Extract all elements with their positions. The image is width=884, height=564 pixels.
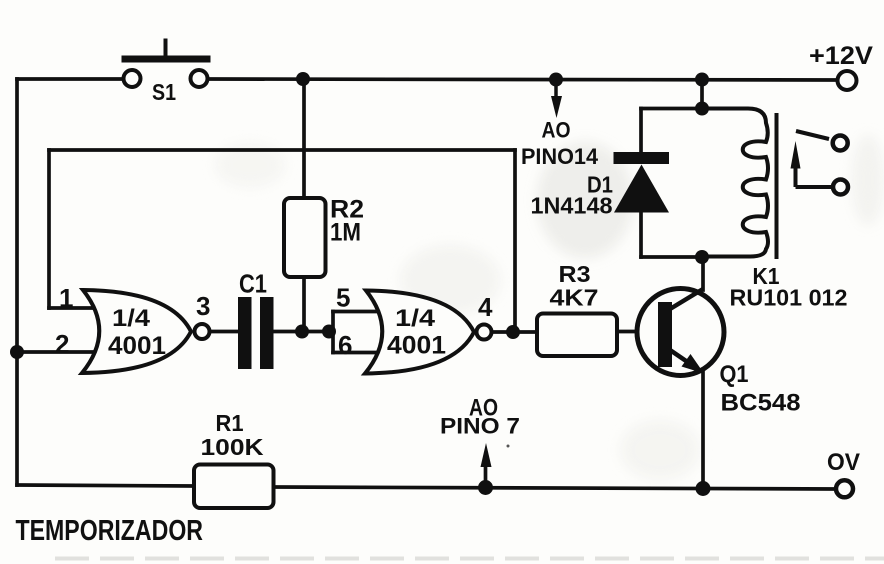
node bottom rail pino7	[478, 480, 493, 495]
resistor R2	[284, 196, 364, 278]
resistor R1	[194, 410, 274, 508]
wire D1 top horizontal	[641, 107, 702, 111]
wire feedback top	[49, 148, 515, 152]
wire gate1 input1	[49, 306, 96, 310]
wire D1 bottom horizontal	[641, 255, 702, 259]
wire gate1 input2	[17, 350, 97, 354]
op-amp U1A NOR gate 1/4 4001	[55, 283, 210, 373]
wire D1 vertical top	[639, 109, 643, 156]
svg-text:1M: 1M	[330, 219, 361, 247]
svg-text:1/4: 1/4	[112, 305, 151, 332]
svg-text:Q1: Q1	[720, 361, 749, 388]
Q1 emitter lead with arrow	[670, 350, 689, 363]
svg-text:R1: R1	[216, 410, 244, 436]
svg-text:PINO 7: PINO 7	[440, 414, 520, 439]
svg-text:6: 6	[338, 330, 352, 360]
node coil bottom	[695, 250, 709, 264]
svg-text:TEMPORIZADOR: TEMPORIZADOR	[16, 515, 204, 547]
wire gate2 input6	[333, 351, 379, 355]
Q1 collector lead	[670, 289, 703, 309]
contact terminal upper	[833, 136, 848, 151]
wire top rail left segment	[17, 77, 124, 81]
wire bottom rail right of R1	[273, 487, 835, 489]
terminal +12V	[809, 42, 873, 90]
wire bottom rail left of R1	[17, 485, 194, 486]
wire R3 to base	[617, 330, 659, 334]
D1 anode triangle	[614, 165, 669, 213]
relay contact	[791, 131, 849, 195]
wire emitter vertical	[701, 371, 705, 487]
svg-text:R3: R3	[559, 261, 591, 287]
svg-text:1: 1	[59, 283, 73, 313]
svg-text:1/4: 1/4	[395, 305, 436, 332]
gate2 output bubble	[477, 325, 492, 340]
S1 push bar	[122, 56, 211, 63]
contact terminal lower	[833, 180, 848, 195]
svg-text:2: 2	[55, 329, 69, 359]
svg-text:+12V: +12V	[809, 42, 873, 70]
svg-text:S1: S1	[152, 79, 176, 105]
svg-text:4001: 4001	[387, 332, 446, 360]
contact wire	[796, 185, 832, 189]
svg-text:C1: C1	[239, 269, 267, 299]
diode D1	[531, 152, 670, 219]
node R2/C1 junction	[295, 325, 309, 339]
wire top rail right segment	[209, 79, 838, 80]
arrowhead from pino7 node	[481, 443, 492, 467]
svg-text:PINO14: PINO14	[521, 144, 599, 169]
wire left rail	[15, 79, 19, 485]
wire collector vertical	[701, 257, 705, 290]
node top rail R2	[296, 72, 310, 86]
wire relay branch from rail	[700, 79, 704, 109]
wire gate2 output to R3	[492, 330, 537, 334]
node left rail input2	[10, 345, 24, 359]
Q1 base bar	[658, 302, 672, 367]
svg-text:4: 4	[478, 292, 493, 322]
wire D1 vertical bottom	[639, 210, 643, 257]
wire gate2 input5	[333, 310, 379, 314]
svg-text:100K: 100K	[201, 434, 264, 460]
node top rail pino14	[549, 73, 563, 87]
wire feedback right vertical	[513, 150, 517, 332]
svg-text:5: 5	[336, 283, 350, 313]
switch S1	[122, 39, 211, 106]
contact moving blade	[796, 131, 829, 139]
gate1 output bubble	[195, 324, 210, 339]
wire R2 top	[302, 79, 306, 198]
svg-text:AO: AO	[542, 118, 571, 143]
op-amp U1B NOR gate 1/4 4001	[336, 283, 493, 374]
svg-text:4K7: 4K7	[550, 285, 599, 311]
D1 cathode bar	[614, 152, 670, 164]
S1 right contact	[191, 70, 208, 87]
svg-text:RU101 012: RU101 012	[730, 285, 848, 311]
node AO PINO 7 arrow	[440, 395, 520, 468]
terminal 0V	[827, 449, 860, 497]
wire feedback left vertical	[47, 150, 51, 308]
contact actuation arrow	[791, 141, 801, 169]
wire R2 bottom	[302, 277, 306, 332]
arrowhead to pino14	[551, 96, 562, 118]
resistor R3	[537, 261, 617, 356]
capacitor C1	[238, 269, 274, 370]
svg-text:OV: OV	[827, 449, 860, 476]
svg-text:BC548: BC548	[721, 390, 801, 417]
scan smudges (decorative)	[55, 135, 884, 559]
node top rail relay branch	[695, 73, 709, 87]
node gate2 output junction	[506, 325, 520, 339]
transistor Q1	[637, 289, 801, 417]
wire gate2 input bracket vertical	[331, 312, 335, 353]
wire AO PINO 7 arrow shaft	[484, 465, 488, 487]
svg-text:4001: 4001	[108, 332, 166, 360]
node bracket junction	[322, 325, 336, 339]
svg-text:1N4148: 1N4148	[531, 193, 613, 219]
node bottom rail emitter	[696, 481, 711, 496]
node coil top	[695, 102, 709, 116]
wire gate1 output to C1	[210, 330, 239, 334]
S1 actuator stem	[164, 39, 168, 56]
relay coil K1	[702, 109, 848, 311]
S1 left contact	[124, 70, 141, 87]
wire C1 to node	[273, 330, 333, 334]
K1 core line	[775, 113, 779, 259]
svg-text:3: 3	[196, 291, 210, 321]
node AO PINO14 arrow	[521, 86, 599, 169]
